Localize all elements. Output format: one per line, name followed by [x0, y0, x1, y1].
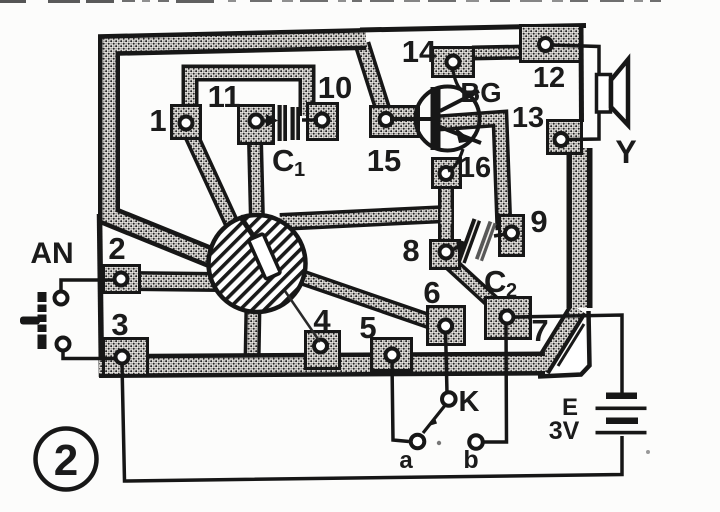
pad 1	[170, 104, 202, 140]
svg-text:C: C	[484, 264, 506, 299]
pad 10	[306, 102, 339, 141]
paper speck between a and b	[437, 441, 441, 445]
battery E 3V	[596, 393, 647, 435]
transistor BG	[390, 70, 481, 171]
wire AN switch to pad 3	[63, 350, 116, 359]
svg-text:7: 7	[531, 313, 548, 348]
svg-text:AN: AN	[30, 237, 73, 270]
svg-text:13: 13	[512, 102, 544, 134]
pad 4	[304, 330, 341, 370]
trace: pad 14 to pad 12	[472, 52, 525, 53]
svg-text:2: 2	[54, 436, 78, 485]
pad 2	[102, 264, 141, 294]
trace: trimmer to pad 6	[298, 276, 446, 327]
pad 9	[498, 214, 525, 257]
wire AN switch to pad 2	[61, 280, 114, 293]
wire pad 12 to speaker to pad 13	[551, 45, 599, 140]
pad 3	[102, 337, 149, 377]
scan artifact dashes along top edge	[0, 0, 661, 3]
capacitor C1	[262, 105, 318, 141]
trace: transistor elbow down to pad 9	[438, 119, 504, 231]
wire pad 7 to battery plus	[514, 315, 622, 393]
pad 7	[484, 296, 532, 340]
pad 5	[370, 337, 413, 372]
svg-text:9: 9	[530, 204, 547, 239]
board corner keep-out wedge	[538, 311, 590, 377]
svg-text:16: 16	[459, 152, 491, 184]
pad 11	[237, 104, 275, 145]
switch AN	[20, 292, 70, 351]
trimmer wiper line to pad 4	[285, 291, 320, 342]
svg-text:12: 12	[533, 62, 565, 94]
svg-text:10: 10	[318, 70, 352, 105]
wire pad 5 to contact a	[392, 362, 409, 442]
trace: diagonal corner link rail to right band	[541, 309, 578, 369]
junction patch	[441, 209, 452, 224]
svg-text:b: b	[463, 446, 478, 474]
svg-text:1: 1	[149, 103, 166, 138]
svg-text:15: 15	[367, 143, 401, 178]
svg-text:BG: BG	[460, 77, 501, 108]
figure number 2	[36, 429, 97, 490]
pad 15	[369, 105, 420, 138]
svg-text:6: 6	[423, 275, 440, 310]
pad 13	[546, 119, 583, 155]
trace: pad 1 to trimmer	[186, 124, 237, 235]
svg-text:Y: Y	[615, 134, 636, 170]
pad 6	[426, 305, 466, 346]
paper speck right	[646, 450, 650, 454]
pad 16	[431, 157, 462, 189]
board edge: bottom rail band	[99, 364, 545, 367]
wire pad 3 to battery minus (bottom rail wire)	[122, 364, 622, 481]
svg-text:4: 4	[313, 303, 331, 338]
trace: diagonal from top rail to pad 15	[362, 44, 383, 110]
speaker Y	[597, 60, 629, 126]
board edge: left edge band + top edge band	[109, 39, 366, 259]
svg-text:5: 5	[359, 310, 376, 345]
svg-text:1: 1	[294, 159, 305, 181]
board edge: plain left lower outline	[100, 214, 102, 377]
trace: pad 2 to trimmer	[130, 281, 218, 282]
svg-text:a: a	[399, 447, 413, 474]
trimmer potentiometer (hatched disc with slot)	[209, 215, 306, 312]
trace: trimmer down to bottom rail	[252, 305, 253, 362]
svg-text:K: K	[459, 386, 480, 418]
pad 8	[429, 239, 461, 270]
trace: pad 8 to pad 7	[450, 263, 498, 307]
pad 12	[519, 24, 582, 63]
svg-text:8: 8	[402, 233, 419, 268]
svg-text:14: 14	[402, 34, 437, 69]
trace: pad 16 to pad 8	[438, 176, 454, 250]
pad 14	[431, 46, 475, 78]
board edge: plain top outline right portion	[360, 26, 586, 31]
capacitor C2	[452, 215, 505, 268]
svg-text:11: 11	[208, 79, 241, 114]
wire pad 6 to key K	[446, 333, 447, 393]
svg-text:2: 2	[108, 231, 125, 266]
svg-text:C: C	[272, 143, 294, 178]
svg-text:2: 2	[506, 280, 517, 302]
board edge: plain right upper outline	[579, 26, 585, 122]
trace: trimmer to pads 16/8 tee	[280, 214, 447, 222]
key K with contacts a and b	[411, 392, 483, 449]
trace: C1 pad 11 down to trimmer	[255, 140, 257, 222]
svg-text:3V: 3V	[549, 417, 580, 445]
svg-text:3: 3	[111, 307, 128, 342]
trace: loop pad1-pad10	[190, 73, 307, 120]
wire contact b to pad 7	[484, 324, 507, 442]
board edge: right side copper band	[567, 148, 593, 308]
